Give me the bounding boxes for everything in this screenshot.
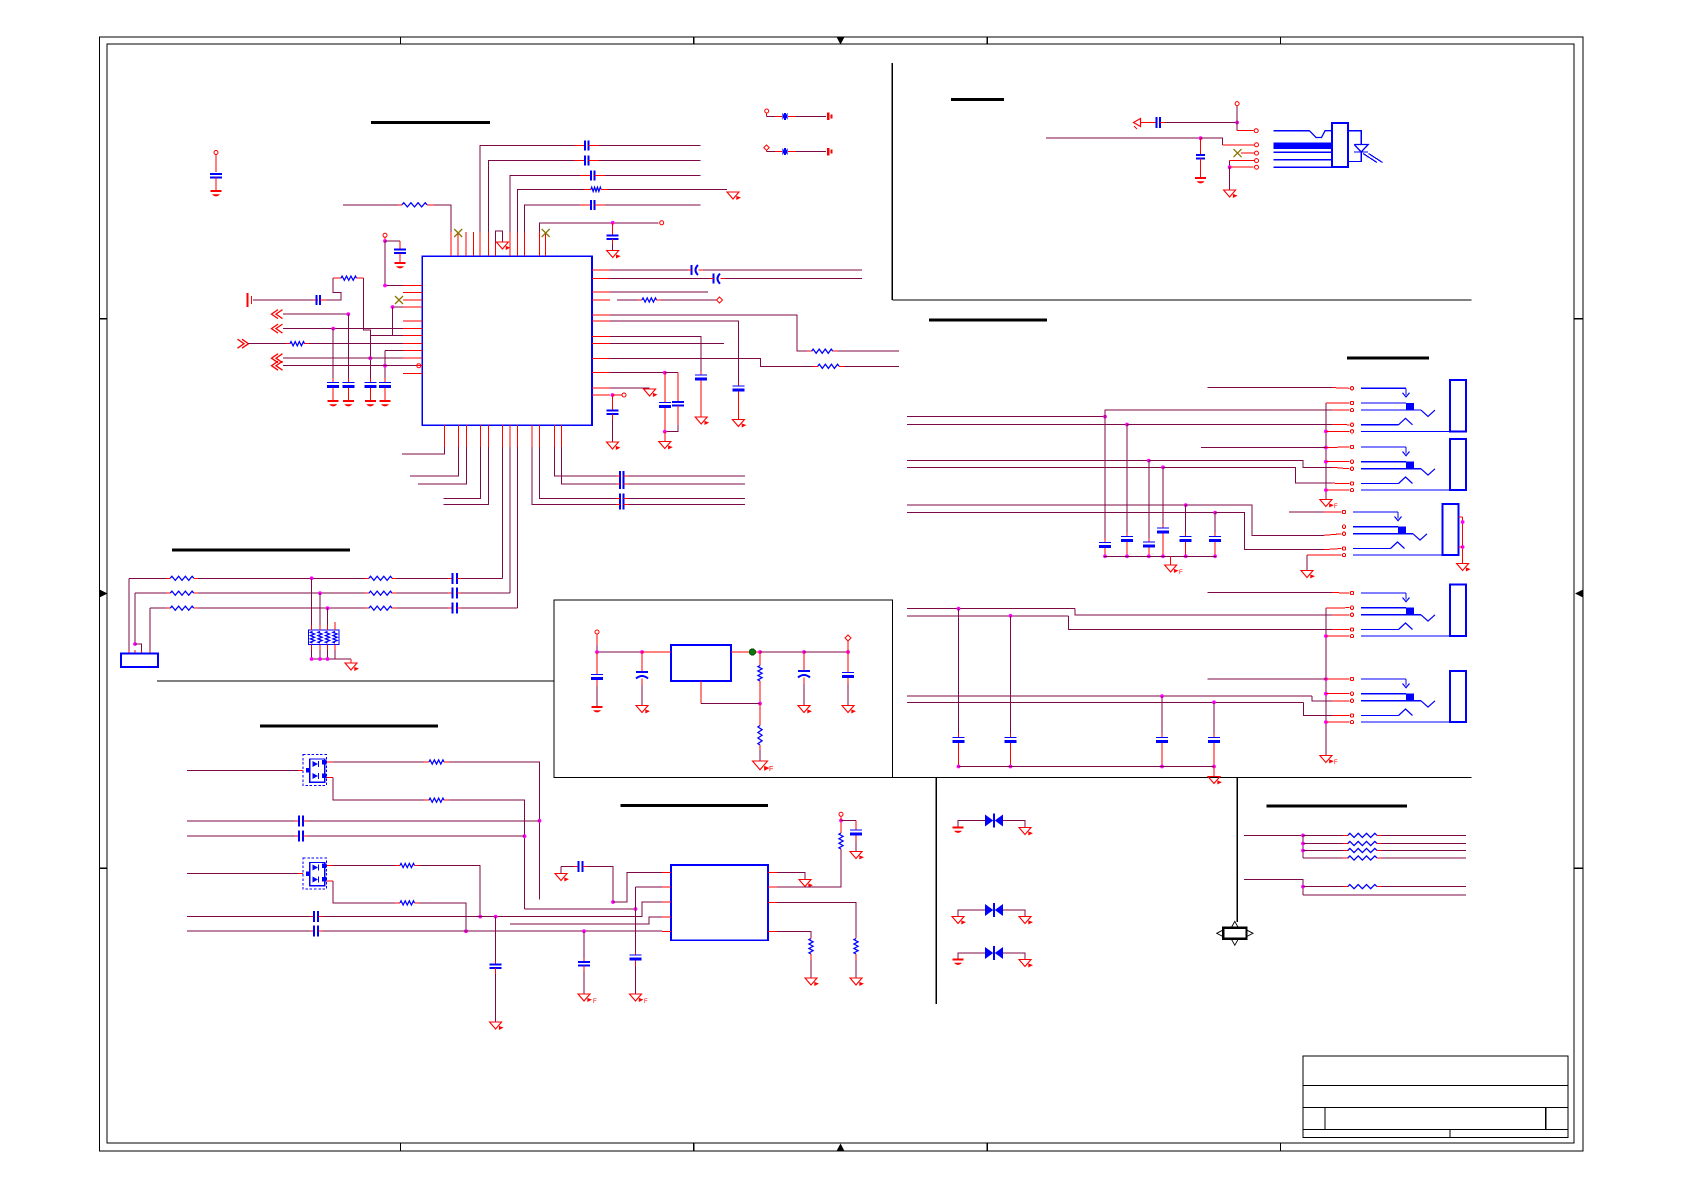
ground RF2	[753, 761, 774, 773]
capacitor row12	[607, 395, 619, 442]
section title bar: protection	[1267, 805, 1408, 808]
junction on line6	[611, 221, 615, 225]
line B series cap	[295, 831, 308, 842]
amp cap gnd	[555, 866, 569, 881]
ground CP3	[798, 706, 812, 714]
border center arrow bottom	[837, 1144, 845, 1152]
ground CC1	[490, 1022, 504, 1030]
host line2 left drop	[134, 593, 136, 644]
ground row11	[644, 389, 658, 397]
U1 bottom wire b5	[444, 447, 489, 505]
wire chevron4 row10	[283, 357, 403, 359]
ground (earth) D5 left	[953, 959, 964, 965]
host line2 resistor A	[135, 591, 198, 595]
capacitor CL4	[379, 378, 391, 400]
section title bar: jacks	[1347, 357, 1429, 360]
ground RD	[805, 978, 819, 986]
diode circuit 1 wire+diode	[767, 113, 826, 120]
host connector pin stubs	[129, 608, 150, 653]
ground row12	[607, 442, 621, 450]
capacitor on b12	[616, 479, 745, 489]
U1 right pin stubs	[592, 270, 610, 395]
audio cap bus 2	[959, 766, 1215, 768]
line 909 wire	[525, 907, 638, 911]
U1 left row4 wire	[391, 305, 403, 309]
IC U1 main controller body	[422, 256, 592, 425]
terminal (audio in)	[248, 293, 252, 307]
ground D5 right	[1019, 960, 1033, 968]
R group vertical	[1301, 835, 1305, 858]
diode circuit 2 open diamond	[764, 145, 769, 152]
diode circuit 2 wire+diode	[767, 148, 827, 155]
wire J3 sleeve gnd	[1307, 555, 1342, 570]
TVS diode D5	[985, 946, 1003, 960]
wire chevron1	[283, 312, 350, 316]
host line2 series cap	[448, 588, 461, 599]
line D wire right	[323, 929, 663, 933]
audio cap CA5	[1180, 505, 1192, 558]
RB branch cap	[841, 821, 862, 852]
section title bar: audio outputs	[929, 319, 1047, 322]
host line3 wire mid	[198, 606, 365, 610]
wire J3 pin1 stub	[1289, 511, 1342, 513]
host line3 resistor A	[150, 606, 198, 610]
U1 right row4 resistor	[617, 298, 716, 302]
audio cap CB2	[1005, 616, 1017, 769]
capacitor on line5	[580, 200, 605, 210]
resistor RB vertical	[839, 821, 843, 850]
line B wire right	[308, 835, 525, 837]
open pin circle line6	[660, 221, 664, 225]
wire chevron3 segment	[248, 343, 286, 345]
section divider vertical x=936	[935, 778, 937, 1005]
connector pin circle IR 1	[1254, 129, 1258, 133]
U1 bottom wire b8 (to host line3)	[516, 447, 518, 608]
host line3 left drop	[149, 608, 151, 650]
host line3 series cap	[448, 603, 461, 614]
RN1 bottom leads	[312, 645, 335, 651]
U1 right row5 long wire	[610, 315, 807, 351]
audio wire W1	[907, 410, 1350, 418]
series resistor RG2	[1303, 841, 1466, 845]
ground RB branch	[850, 852, 864, 860]
host line1 resistor B	[365, 576, 397, 580]
svg-text:F: F	[769, 766, 773, 773]
wire opto U3 input	[187, 770, 303, 772]
wire IR up to circle	[1236, 106, 1238, 123]
U5 pinB wire	[777, 850, 841, 888]
audio wire WA	[907, 607, 1350, 615]
line C wire	[187, 916, 310, 918]
input chevron 4	[272, 354, 283, 363]
audio cap CB1	[953, 609, 965, 769]
ground at end of line4	[727, 192, 741, 200]
ground (earth) CL1	[328, 400, 339, 406]
wire loop right leg	[363, 278, 370, 382]
line D wire	[187, 930, 310, 932]
IR receiver module body	[1274, 123, 1348, 167]
series resistor RG4	[1303, 856, 1466, 860]
cap pair row10 left	[659, 373, 671, 432]
host line2 wire to cap	[397, 592, 449, 594]
connector pin circle IR 3	[1241, 151, 1259, 155]
U5 pinC wire	[777, 903, 856, 938]
ground J3 right	[1457, 564, 1471, 572]
section divider horizontal y=777.5	[893, 777, 1472, 779]
ground IR pins	[1224, 190, 1238, 198]
ground D4 left	[952, 917, 966, 925]
host line3 resistor B	[365, 606, 397, 610]
terminal port 1	[828, 113, 831, 121]
audio wire WB	[907, 614, 1350, 630]
U1 right row10 wire	[610, 371, 667, 375]
U1 bottom wire b6 (to host line1)	[501, 447, 503, 578]
capacitor C1	[210, 174, 222, 190]
resistor on line4	[584, 187, 608, 191]
audio wire W5	[907, 503, 1342, 535]
ground CP2	[636, 706, 650, 714]
wire D4 left	[958, 910, 985, 916]
section divider vertical (top right area)	[891, 63, 893, 300]
ground for C6	[607, 251, 621, 259]
resistor loop R	[333, 276, 363, 280]
capacitor CL3	[364, 378, 376, 400]
ground D3 right	[1019, 828, 1033, 836]
host line2 wire mid	[198, 591, 365, 595]
border zone ticks top/bottom	[400, 37, 1280, 1151]
connector pin circle IR 2	[1255, 143, 1259, 147]
series capacitor IR	[1141, 117, 1165, 128]
U1 top pin stubs	[451, 232, 546, 256]
wire row9 end	[844, 365, 899, 367]
wire cap to loop	[326, 278, 341, 300]
input chevron 2	[272, 324, 283, 333]
junction node A	[383, 238, 387, 243]
wire opto U3 out top	[327, 761, 425, 763]
host line3 wire to U1	[461, 607, 517, 609]
U1 left row7 wire	[370, 335, 403, 337]
ground (earth) D3 left	[953, 827, 964, 833]
line B wire	[187, 835, 295, 837]
series resistor RG3	[1303, 848, 1466, 852]
junction feedback	[758, 702, 762, 706]
U5 out1 wire	[777, 873, 805, 879]
capacitor in series (audio)	[313, 295, 326, 305]
ground row10	[659, 432, 673, 450]
audio wire W3	[907, 459, 1350, 469]
wire U2 output	[731, 651, 752, 653]
capacitor on line2	[574, 156, 599, 166]
U1 bottom wire b11	[555, 447, 616, 476]
U1 bottom pin stubs	[444, 425, 561, 447]
ground at U1 top (pin gnd)	[496, 231, 511, 256]
U1 right row9 wire	[610, 359, 813, 367]
vertical row9 branch	[383, 351, 387, 383]
open circle RB	[839, 812, 843, 820]
U1 right row7 wire	[610, 337, 701, 371]
U1 bottom wire b3	[418, 447, 467, 484]
audio wire W6	[907, 511, 1342, 550]
ground (earth) IR	[1195, 177, 1206, 183]
wire opto U3 bottom to line B	[449, 800, 526, 909]
U1 bottom wire b10	[539, 447, 616, 499]
audio cap CA6	[1209, 513, 1221, 559]
capacitor on line1	[574, 140, 599, 150]
U5 left pin stubs	[662, 873, 671, 932]
wire J4 pin1 stub	[1208, 592, 1350, 594]
open pin circle node A	[383, 233, 387, 237]
junction row10/vert	[368, 356, 372, 360]
diode circuit 1 open circle	[765, 109, 769, 116]
host line1 series cap	[448, 573, 461, 584]
TVS diode D4	[985, 903, 1003, 917]
audio cap CA2	[1121, 425, 1133, 559]
ground RC	[850, 978, 864, 986]
resistor RC vertical	[854, 937, 858, 978]
amp cap to node	[587, 866, 615, 904]
capacitor C1 pull-up node	[214, 151, 218, 173]
ground audio bus 2	[1208, 767, 1222, 785]
ground jack bus 2	[1320, 756, 1338, 767]
line C gnd branch	[495, 917, 497, 961]
resistor row9	[813, 364, 844, 368]
section title bar: optocoupler inputs	[260, 725, 438, 728]
section divider vertical x=1237	[1236, 778, 1238, 923]
wire from terminal	[253, 299, 313, 301]
audio cap CA4	[1157, 467, 1169, 558]
no-connect X IR	[1234, 149, 1242, 157]
capacitor at node A	[394, 250, 406, 263]
wire opto U4 bottom to line D	[419, 903, 468, 933]
U1 right row2 wire + cap	[610, 274, 862, 284]
junction U2 out	[756, 650, 804, 654]
input chevron 3 (out)	[238, 339, 249, 348]
RN1 top wires	[312, 578, 328, 625]
fiducial/logo symbol	[1217, 921, 1253, 945]
line A wire	[187, 820, 295, 822]
wire opto U4 out top	[327, 865, 396, 867]
ground U5 out1	[799, 880, 813, 888]
U1 bottom wire b9	[532, 447, 616, 505]
resistor opto U3 top	[424, 760, 449, 764]
capacitor CC1	[490, 961, 502, 1022]
resistor opto U4 bottom	[395, 901, 419, 905]
host line1 left drop	[128, 578, 130, 650]
section title bar: IR receiver	[951, 98, 1004, 101]
U1 bottom wire b4	[444, 447, 481, 499]
connector pin circle IR 4	[1230, 159, 1259, 163]
wire IR supply	[1046, 136, 1254, 145]
no-connect X on U1 left row3	[395, 296, 403, 304]
vertical row6 to cap	[332, 329, 334, 383]
net wire into R group 2	[1244, 880, 1305, 895]
svg-text:F: F	[644, 999, 648, 1005]
U1 bottom wire b1	[402, 447, 444, 454]
wire node A to U1 left pin row1	[384, 241, 386, 286]
optocoupler U4	[303, 858, 327, 889]
jack J4 (audio)	[1350, 585, 1466, 638]
svg-text:F: F	[1179, 570, 1183, 576]
wire J1 pin1 stub	[1208, 387, 1350, 390]
wire line5 above U1	[525, 205, 701, 232]
border center arrow right	[1575, 590, 1583, 598]
capacitor on line3	[580, 171, 605, 181]
jack gnd bus 2	[1324, 608, 1350, 755]
wire rail into U2	[642, 651, 671, 653]
optocoupler U3	[303, 755, 327, 786]
line D cap branch	[583, 931, 585, 958]
resistor opto U3 bottom	[424, 798, 449, 802]
resistor RF2 (feedback bottom)	[758, 704, 762, 761]
power rail left	[595, 645, 642, 654]
J3 right red link	[1459, 517, 1465, 563]
capacitor CL1	[327, 378, 339, 400]
input chevron 5	[272, 361, 283, 370]
resistor RD vertical	[809, 937, 813, 978]
junction CP4	[846, 650, 850, 654]
ground jack bus 1	[1320, 500, 1338, 511]
no-connect X on U1 top pin 11	[542, 229, 550, 237]
amp node to pin1	[613, 873, 662, 902]
wire opto U3 out bottom	[327, 778, 425, 801]
resistor opto U4 top	[395, 863, 419, 867]
cap pair row10 right	[665, 373, 684, 432]
wire J2 pin1 stub	[1201, 446, 1350, 449]
ground J3	[1301, 571, 1315, 579]
open diamond row4	[717, 297, 723, 303]
line A series cap	[295, 815, 308, 826]
U5 pin2 vertical	[636, 887, 663, 952]
U1 left pin stubs	[403, 286, 422, 374]
wire U2 adj pin	[701, 681, 760, 704]
wire IR to pin1	[1237, 123, 1253, 131]
capacitor CP1	[591, 652, 603, 706]
terminal port 2	[828, 148, 831, 156]
net marker green dot	[749, 649, 755, 655]
capacitor on b9	[616, 500, 745, 510]
jack gnd bus 1	[1324, 403, 1350, 499]
resistor R pin1 feed	[398, 203, 434, 207]
open pin circle row12	[622, 393, 626, 397]
line A wire right	[308, 820, 540, 822]
section title bar: host interface	[172, 549, 350, 552]
U5 right pin stubs	[768, 873, 777, 932]
title block	[1303, 1056, 1568, 1138]
line C series cap	[310, 911, 323, 922]
audio cap CB3	[1156, 696, 1168, 768]
resistor network RN1 elements	[310, 632, 337, 644]
line D series cap	[310, 926, 323, 937]
resistor RF1 (feedback top)	[758, 652, 762, 704]
input chevron 1	[272, 310, 283, 319]
capacitor C6 below line6	[607, 223, 619, 250]
IR gnd bracket	[1228, 161, 1254, 170]
capacitor CC2	[578, 959, 590, 994]
host line1 wire to cap	[397, 577, 449, 579]
audio cap CA3	[1143, 461, 1155, 559]
RN1 bottom bus	[310, 650, 351, 661]
capacitor row6	[732, 382, 744, 419]
U1 right row6 wire	[610, 321, 738, 382]
wire IR node	[1165, 121, 1239, 125]
ground (earth) CL3	[365, 400, 376, 406]
jack J2 (audio)	[1350, 439, 1466, 492]
host line1 wire to U1	[461, 577, 502, 579]
wire RG group2 bottom	[1303, 894, 1466, 896]
capacitor CL2	[342, 378, 354, 400]
wire D5 right	[1003, 953, 1025, 959]
IR receiver diode detail	[1348, 131, 1383, 163]
no-connect X on U1 top pin 2	[454, 229, 462, 237]
ground (earth) for C1	[211, 190, 222, 196]
ground row7	[695, 417, 709, 425]
power input circle	[595, 630, 599, 645]
junction CP3	[802, 650, 848, 654]
ground RN1	[345, 659, 359, 671]
section title bar: main controller	[371, 121, 490, 124]
section divider horizontal y=681 (left)	[157, 680, 554, 682]
input terminal IR	[1134, 119, 1141, 130]
ground CP4	[842, 706, 856, 714]
line C wire right	[323, 902, 663, 918]
wire chevron5 row11	[283, 365, 416, 367]
U1 left row1 wire	[383, 284, 403, 288]
ground (earth) node A	[395, 262, 406, 268]
wire opto U4 input	[187, 873, 303, 875]
wire J5 pin1 stub	[1208, 678, 1350, 680]
jack J1 (audio)	[1350, 380, 1466, 433]
wire row5 end	[838, 350, 899, 352]
U5 pin4 jog	[648, 917, 650, 924]
open circle IR top	[1235, 102, 1239, 106]
border center arrow top	[837, 37, 845, 45]
capacitor CP4	[842, 652, 854, 705]
net wire into R group	[1244, 834, 1305, 838]
section title bar: amplifier	[621, 804, 769, 807]
vertical chevron1 to cap	[347, 314, 349, 382]
U1 bottom wire b7 (to host line2)	[509, 447, 511, 593]
power section box outline	[554, 600, 893, 778]
border center arrow left	[100, 590, 108, 598]
power out diamond	[845, 635, 851, 652]
audio wire W4	[907, 465, 1350, 483]
host line1 resistor A	[129, 576, 198, 580]
U1 left row9 wire	[385, 350, 403, 352]
U1 bottom wire b12	[561, 447, 616, 484]
junction RB top	[839, 819, 843, 823]
capacitor CP3	[798, 652, 810, 705]
wire line3 above U1	[510, 176, 701, 233]
U1 right row11 wire	[610, 387, 650, 389]
line E wire (aux)	[510, 917, 662, 924]
capacitor on b11	[616, 471, 745, 481]
host line1 wire mid	[198, 576, 365, 580]
ground audio bus 1	[1165, 556, 1183, 576]
connector pin circle IR 5	[1255, 165, 1259, 169]
resistor row5	[807, 349, 838, 353]
wire line1 above U1	[480, 145, 701, 232]
wire D3 right	[1003, 821, 1025, 828]
audio wire WD	[907, 700, 1350, 715]
capacitor CC3 (pin2)	[630, 952, 642, 994]
wire to R at U1 pin1	[343, 204, 400, 206]
wire D5 left	[958, 953, 985, 959]
U1 right row12 node	[611, 393, 622, 397]
wire node A branch	[385, 241, 400, 250]
audio cap CB4	[1208, 702, 1220, 768]
audio wire WC	[907, 694, 1350, 701]
connector J host	[121, 654, 158, 668]
